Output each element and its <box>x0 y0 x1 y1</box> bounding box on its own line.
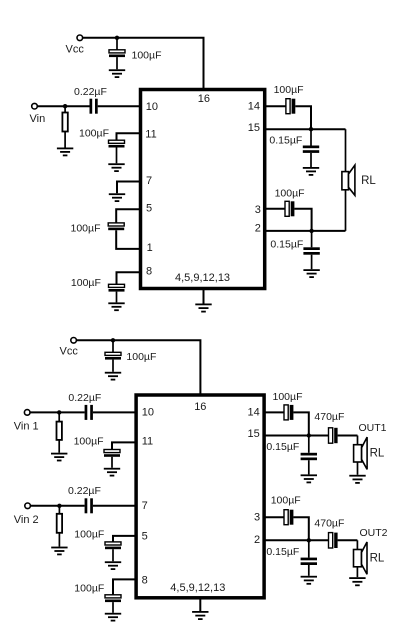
svg-text:2: 2 <box>255 223 261 235</box>
capacitor C13 0.22uF <box>85 498 93 513</box>
ground (C15) <box>105 613 121 622</box>
svg-text:100µF: 100µF <box>273 391 303 403</box>
ground (C9) <box>303 269 319 278</box>
node A junction <box>309 127 313 131</box>
svg-text:Vin 2: Vin 2 <box>14 514 39 526</box>
svg-text:14: 14 <box>248 406 260 418</box>
ground (R1) <box>57 148 73 157</box>
svg-text:0.22µF: 0.22µF <box>68 485 101 497</box>
capacitor C20 0.15uF <box>301 540 317 576</box>
svg-text:100µF: 100µF <box>79 128 109 140</box>
node Vcc/C10 junction <box>111 338 115 342</box>
wire pin 15 to speaker <box>265 128 346 130</box>
wire pin 14 to C6 <box>265 105 286 107</box>
svg-text:OUT1: OUT1 <box>359 422 387 434</box>
svg-text:11: 11 <box>142 436 153 448</box>
capacitor C2 0.22uF (input coupling) <box>90 99 98 114</box>
svg-text:8: 8 <box>142 575 148 587</box>
capacitor C15 100uF (pin 8 bypass) <box>105 595 121 613</box>
svg-text:7: 7 <box>142 500 148 512</box>
svg-text:0.22µF: 0.22µF <box>68 392 101 404</box>
ground (C14) <box>105 561 121 570</box>
ground (C20) <box>301 576 317 585</box>
speaker RL <box>342 165 355 195</box>
svg-text:14: 14 <box>248 100 260 112</box>
capacitor C14 100uF (pin 5 bypass) <box>105 542 121 561</box>
wire pin 5 to C4 <box>116 209 140 223</box>
svg-text:470µF: 470µF <box>314 517 344 529</box>
svg-text:Vin 1: Vin 1 <box>14 421 39 433</box>
resistor R3 <box>57 506 62 547</box>
svg-text:2: 2 <box>254 534 260 546</box>
svg-text:0.15µF: 0.15µF <box>269 135 302 147</box>
wire C11 to pin 10 <box>93 411 136 413</box>
svg-text:5: 5 <box>146 203 152 215</box>
wire C19 to node D <box>293 517 308 540</box>
terminal Vin <box>32 103 38 109</box>
svg-text:15: 15 <box>248 122 260 134</box>
wire C18 to speaker OUT1 <box>338 435 358 437</box>
ground (U2) <box>192 611 208 620</box>
ground (C5) <box>108 302 124 311</box>
node Vcc/C1 junction <box>115 36 119 40</box>
capacitor C17 0.15uF <box>301 436 317 475</box>
wire U1 ground stub <box>203 290 205 304</box>
capacitor C1 100uF (Vcc decoupling) <box>109 38 125 70</box>
terminal Vin 2 <box>25 503 31 509</box>
svg-text:OUT2: OUT2 <box>360 527 388 539</box>
svg-text:11: 11 <box>145 128 156 140</box>
terminal Vcc <box>77 35 83 41</box>
wire Vcc rail to pin 16 <box>83 38 204 90</box>
svg-text:100µF: 100µF <box>275 188 305 200</box>
wire C21 to speaker OUT2 <box>338 539 358 541</box>
svg-text:100µF: 100µF <box>74 528 104 540</box>
svg-text:100µF: 100µF <box>274 84 304 96</box>
capacitor C6 100uF (pin 14 output) <box>286 99 295 114</box>
svg-text:RL: RL <box>370 553 385 565</box>
capacitor C10 100uF (Vcc decoupling) <box>105 340 121 372</box>
capacitor C11 0.22uF <box>85 405 93 420</box>
wire pin 5 to C14 <box>113 536 136 542</box>
svg-text:1: 1 <box>147 242 153 254</box>
resistor R1 (input bias) <box>62 106 67 147</box>
svg-text:4,5,9,12,13: 4,5,9,12,13 <box>175 272 230 284</box>
capacitor C19 100uF (pin 3 output) <box>284 510 293 525</box>
wire pin 2 to speaker <box>265 230 346 232</box>
svg-text:7: 7 <box>146 175 152 187</box>
wire Vin 2 to C13 <box>30 505 84 507</box>
svg-text:Vin: Vin <box>30 113 46 125</box>
svg-text:16: 16 <box>194 401 206 413</box>
wire Vin to C2 <box>37 105 89 107</box>
wire pin 14 to C16 <box>264 411 284 413</box>
svg-text:10: 10 <box>142 407 154 419</box>
svg-text:100µF: 100µF <box>132 50 162 62</box>
wire pin 1 to C4 <box>116 230 140 249</box>
node Vin1/R2 junction <box>57 410 61 414</box>
ground (C17) <box>301 474 317 483</box>
svg-text:100µF: 100µF <box>271 495 301 507</box>
wire pin 8 to C15 <box>113 579 136 594</box>
capacitor C16 100uF (pin 14 output) <box>284 405 293 420</box>
ground (pin 7) <box>109 193 125 202</box>
wire pin 15 to C18 <box>264 435 328 437</box>
op-amp U2 (stereo power amplifier IC) <box>136 395 264 598</box>
svg-text:100µF: 100µF <box>71 223 101 235</box>
terminal Vin 1 <box>24 410 30 416</box>
svg-text:3: 3 <box>255 204 261 216</box>
ground (C12) <box>104 468 120 477</box>
capacitor C18 470uF (OUT1 coupling) <box>329 428 338 443</box>
capacitor C9 0.15uF <box>303 231 319 269</box>
svg-text:0.15µF: 0.15µF <box>266 546 299 558</box>
ground (R2) <box>51 453 67 462</box>
svg-text:10: 10 <box>146 101 158 113</box>
svg-text:100µF: 100µF <box>126 351 156 363</box>
wire C16 to node C <box>293 412 308 435</box>
capacitor C8 100uF (pin 3 output) <box>285 201 294 216</box>
ground (C3) <box>108 163 124 172</box>
ground (R3) <box>51 547 67 556</box>
wire pin 11 to C12 <box>112 442 136 449</box>
wire pin 8 to C5 <box>117 272 141 284</box>
svg-text:3: 3 <box>254 511 260 523</box>
wire Vcc rail to pin 16 <box>77 340 201 395</box>
wire C8 to node B <box>294 209 311 231</box>
op-amp U1 (power amplifier IC) <box>141 90 265 289</box>
wire C2 to pin 10 <box>98 105 141 107</box>
svg-text:Vcc: Vcc <box>60 346 79 358</box>
wire pin 3 to C19 <box>264 516 284 518</box>
svg-text:RL: RL <box>370 448 385 460</box>
wire speaker top lead <box>345 129 347 171</box>
ground (U1) <box>195 304 211 313</box>
svg-text:100µF: 100µF <box>71 277 101 289</box>
ground (C10) <box>105 372 121 381</box>
wire speaker bottom lead <box>345 190 347 231</box>
ground (C1) <box>109 69 125 78</box>
svg-text:0.15µF: 0.15µF <box>270 239 303 251</box>
svg-text:100µF: 100µF <box>74 583 104 595</box>
svg-text:4,5,9,12,13: 4,5,9,12,13 <box>170 582 225 594</box>
ground (C7) <box>303 167 319 176</box>
ground (speaker OUT2) <box>349 577 365 586</box>
capacitor C21 470uF (OUT2 coupling) <box>329 533 338 548</box>
wire pin 3 to C8 <box>265 208 285 210</box>
capacitor C4 100uF (between pins 5 and 1) <box>108 223 124 230</box>
speaker RL (OUT2) <box>354 540 368 577</box>
capacitor C7 0.15uF <box>303 129 319 167</box>
capacitor C3 100uF (pin 11 bypass) <box>109 140 125 163</box>
svg-text:100µF: 100µF <box>74 436 104 448</box>
svg-text:470µF: 470µF <box>314 411 344 423</box>
capacitor C5 100uF (pin 8 bypass) <box>109 284 125 302</box>
svg-text:5: 5 <box>142 531 148 543</box>
svg-text:8: 8 <box>146 266 152 278</box>
wire C13 to pin 7 <box>93 505 136 507</box>
wire U2 ground stub <box>199 598 201 611</box>
svg-text:15: 15 <box>248 428 260 440</box>
wire pin 11 to C3 <box>117 133 141 140</box>
node B junction <box>309 229 313 233</box>
node Vin/R1 junction <box>63 104 67 108</box>
terminal Vcc (stereo) <box>71 338 77 344</box>
svg-text:Vcc: Vcc <box>66 43 85 55</box>
resistor R2 <box>57 412 62 452</box>
capacitor C12 100uF (pin 11 bypass) <box>104 450 120 468</box>
svg-text:0.22µF: 0.22µF <box>74 86 107 98</box>
svg-text:16: 16 <box>198 93 210 105</box>
speaker RL (OUT1) <box>354 436 368 475</box>
node D junction <box>307 538 311 542</box>
wire pin 2 to C21 <box>264 539 328 541</box>
node C junction <box>307 433 311 437</box>
svg-text:0.15µF: 0.15µF <box>266 441 299 453</box>
wire Vin 1 to C11 <box>30 411 85 413</box>
node Vin2/R3 junction <box>57 504 61 508</box>
ground (speaker OUT1) <box>349 475 365 484</box>
wire C6 to node A <box>295 106 311 129</box>
wire pin 7 to ground <box>117 182 141 194</box>
svg-text:RL: RL <box>361 175 376 187</box>
